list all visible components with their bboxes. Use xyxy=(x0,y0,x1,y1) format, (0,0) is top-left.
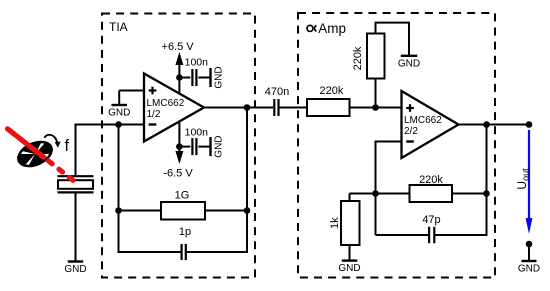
svg-text:GND: GND xyxy=(214,135,225,157)
svg-text:1p: 1p xyxy=(179,226,191,238)
svg-text:1/2: 1/2 xyxy=(147,109,161,120)
svg-text:220k: 220k xyxy=(319,85,343,97)
svg-text:47p: 47p xyxy=(422,214,440,226)
svg-text:+6.5 V: +6.5 V xyxy=(162,41,195,53)
svg-text:GND: GND xyxy=(108,108,130,119)
svg-text:100n: 100n xyxy=(185,126,209,138)
svg-text:TIA: TIA xyxy=(109,20,128,34)
svg-text:GND: GND xyxy=(214,66,225,88)
svg-text:GND: GND xyxy=(64,264,86,275)
svg-text:LMC662: LMC662 xyxy=(404,115,442,126)
svg-text:LMC662: LMC662 xyxy=(147,98,185,109)
svg-text:GND: GND xyxy=(398,58,420,69)
svg-text:470n: 470n xyxy=(265,86,289,98)
svg-text:f: f xyxy=(65,137,70,155)
svg-text:GND: GND xyxy=(338,263,360,274)
svg-text:-6.5 V: -6.5 V xyxy=(163,168,193,180)
svg-text:220k: 220k xyxy=(352,46,364,70)
svg-text:Amp: Amp xyxy=(318,21,346,36)
svg-text:220k: 220k xyxy=(419,174,443,186)
svg-text:1k: 1k xyxy=(329,217,341,229)
svg-text:2/2: 2/2 xyxy=(404,126,418,137)
svg-text:GND: GND xyxy=(518,264,540,275)
svg-text:100n: 100n xyxy=(185,56,209,68)
svg-text:1G: 1G xyxy=(175,190,190,202)
